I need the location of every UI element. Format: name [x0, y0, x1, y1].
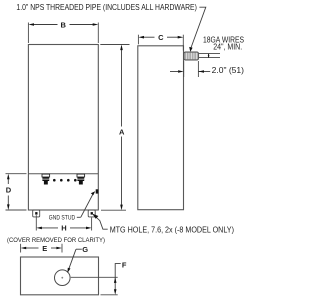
terminal screw right: [77, 174, 85, 184]
svg-text:E: E: [42, 244, 47, 253]
svg-text:G: G: [82, 245, 88, 254]
dim F line and arrows: [114, 270, 116, 291]
dim 2.0 line and arrows: [170, 71, 178, 73]
svg-text:C: C: [158, 33, 164, 42]
bottom view rect: [21, 257, 99, 295]
leader from NPS note to pipe: [190, 7, 206, 49]
dim D line and arrows: [7, 178, 9, 185]
svg-text:D: D: [6, 186, 12, 195]
dim A line and arrows: [121, 48, 123, 127]
dim F bracket and label: [115, 264, 121, 270]
dim E line and arrows: [25, 247, 39, 249]
wire gauge arrows: [208, 54, 210, 57]
dim C extension lines: [137, 35, 139, 45]
side view box: [138, 46, 184, 210]
gnd label dash: [77, 216, 81, 218]
svg-text:GND STUD: GND STUD: [49, 214, 76, 221]
dim H extension lines: [35, 215, 37, 230]
mounting tab left: [33, 210, 40, 217]
wires: [199, 53, 220, 55]
dim D extension lines: [6, 173, 27, 175]
dim F extension lines: [71, 276, 118, 278]
dim E extension lines: [20, 244, 22, 253]
svg-text:H: H: [61, 224, 66, 233]
svg-text:1.0" NPS THREADED PIPE (INCLUD: 1.0" NPS THREADED PIPE (INCLUDES ALL HAR…: [16, 3, 197, 12]
svg-text:24", MIN.: 24", MIN.: [213, 42, 242, 51]
dim B extension lines: [27, 23, 29, 44]
terminal dots: [53, 179, 56, 182]
ground stud: [96, 189, 99, 193]
mounting tab right: [88, 210, 95, 217]
dim C line and arrows: [143, 36, 155, 38]
dim A extension lines: [100, 44, 129, 46]
svg-text:MTG HOLE, 7.6, 2x (-8 MODEL ON: MTG HOLE, 7.6, 2x (-8 MODEL ONLY): [110, 225, 235, 234]
gnd leader line: [81, 193, 94, 218]
conduit hole circle: [55, 270, 71, 286]
mtg hole leader arrow: [94, 215, 108, 229]
svg-text:F: F: [122, 260, 127, 269]
dim H line and arrows: [41, 227, 59, 229]
terminal screw left: [42, 174, 50, 184]
svg-text:2.0" (51): 2.0" (51): [212, 66, 245, 75]
inner panel line: [28, 173, 98, 175]
svg-text:A: A: [119, 127, 125, 136]
dim 2.0 extension lines: [183, 61, 185, 77]
threaded pipe: [184, 52, 199, 60]
front view enclosure box: [28, 45, 98, 211]
svg-text:B: B: [60, 20, 66, 29]
dim B line and arrows: [33, 24, 58, 26]
svg-text:(COVER REMOVED FOR CLARITY): (COVER REMOVED FOR CLARITY): [7, 237, 105, 244]
